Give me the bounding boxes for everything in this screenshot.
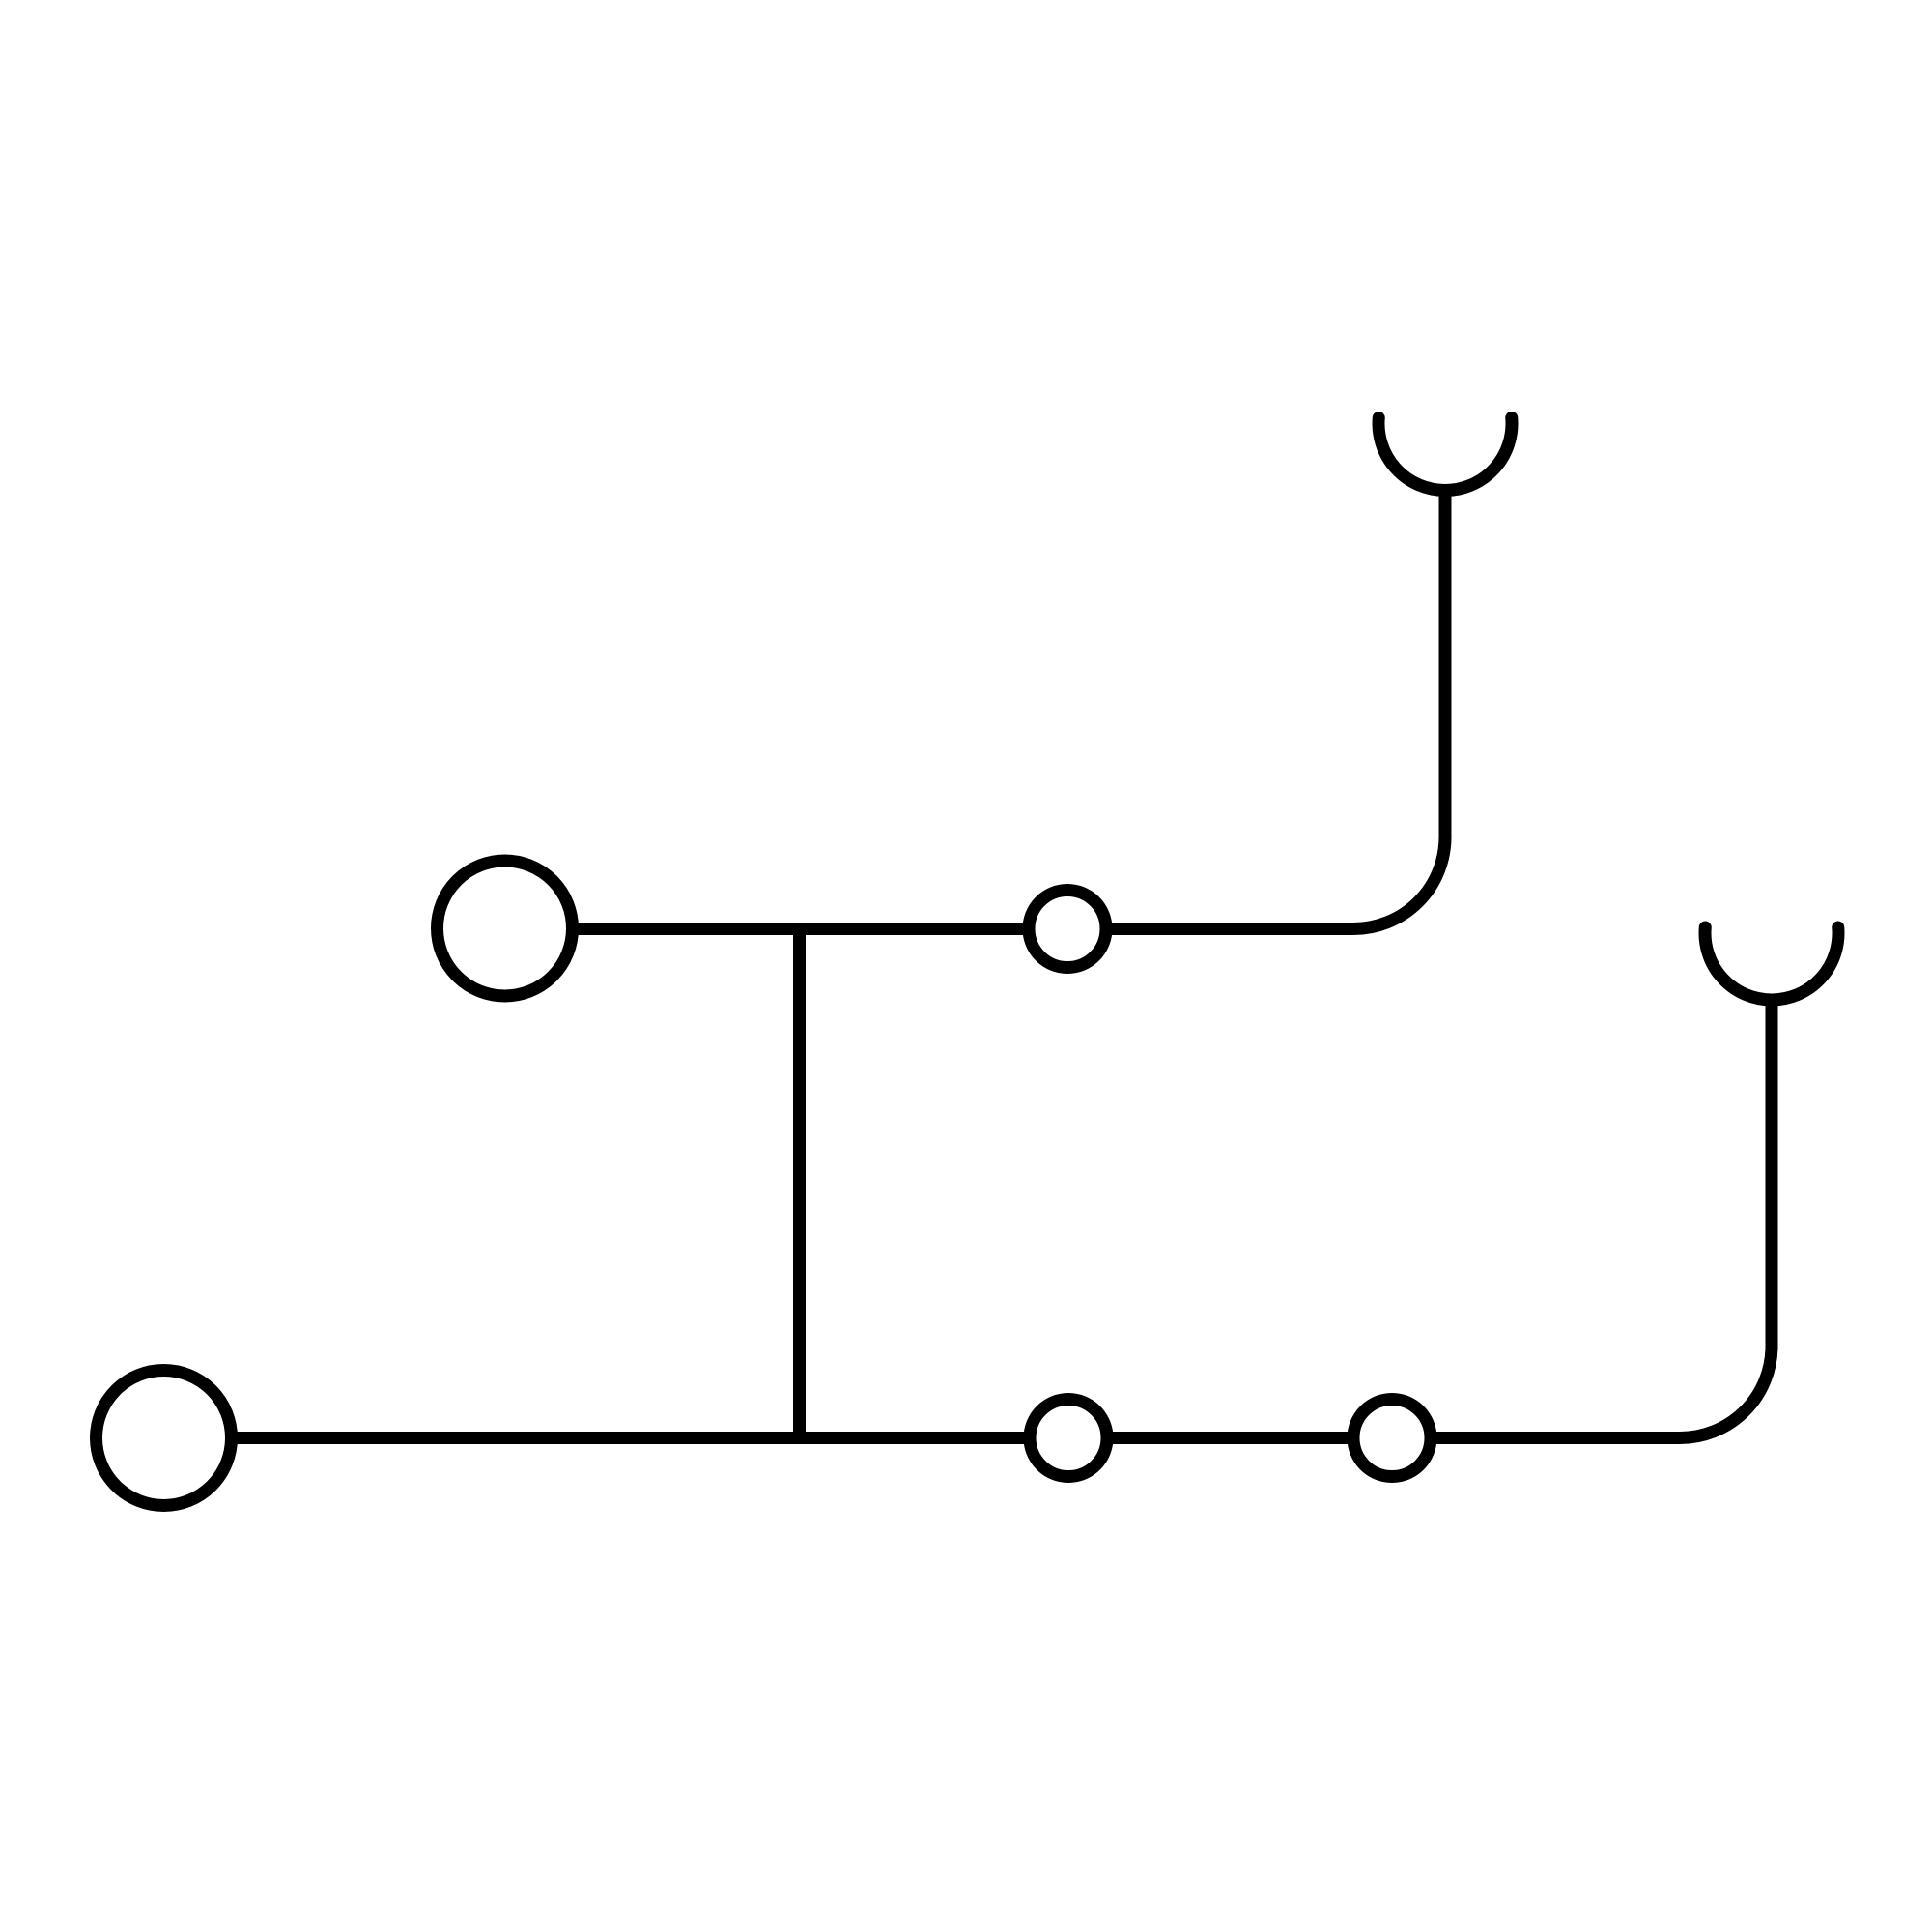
terminal point 2.1: screw clamp connection, lower level [97, 1371, 232, 1506]
terminal point 1.1: screw clamp connection, upper level [438, 861, 573, 996]
plug-in socket contact, lower level [1705, 927, 1838, 1000]
plug-in socket contact, upper level [1378, 418, 1512, 491]
wire: vertical bridge between upper and lower level (junction) [793, 929, 806, 1438]
node: component contact on upper level [1029, 891, 1106, 968]
wire: lower level conductor with corner bend up to socket stem [164, 1000, 1772, 1438]
node: first component contact on lower level [1030, 1400, 1107, 1477]
node: second component contact on lower level [1353, 1400, 1431, 1477]
wire: upper level conductor with corner bend up to socket stem [504, 491, 1445, 929]
